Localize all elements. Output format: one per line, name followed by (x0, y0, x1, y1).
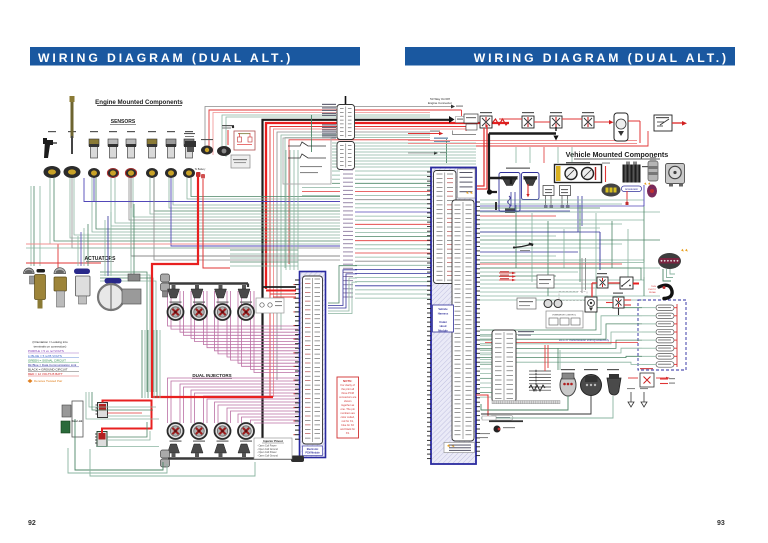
svg-text:Accelerator: Accelerator (625, 187, 638, 191)
regulator valve box (234, 131, 255, 150)
svg-text:Dk Blue = Data Communication L: Dk Blue = Data Communication Link (28, 363, 77, 367)
vehicle connector top label box (458, 169, 476, 198)
53-way connector arrowhead (449, 116, 455, 123)
sensor CKP (48, 131, 56, 132)
accelerator red drop wire (626, 191, 628, 203)
relay I-P Relay (582, 116, 594, 128)
injector bottom row (170, 441, 182, 442)
green loops under oval connector (663, 269, 671, 281)
injector cylinder top (217, 302, 229, 303)
bulkhead connector upper (345, 96, 347, 105)
green nested loops around modules (89, 392, 156, 407)
NOTE box (337, 377, 359, 438)
svg-text:Vehicle: Vehicle (438, 307, 448, 311)
pedal hook icon (659, 285, 672, 298)
injector connector bottom (191, 444, 203, 453)
svg-text:SENSORS: SENSORS (111, 119, 136, 125)
connector module lower (97, 432, 107, 447)
bulkhead left labels top band (322, 104, 336, 105)
svg-text:Denotes Twisted Pair: Denotes Twisted Pair (34, 379, 62, 383)
svg-text:- Open Coil Ground: - Open Coil Ground (257, 454, 278, 457)
MLPS connector (581, 375, 602, 396)
sensor drop wires staircase (50, 178, 340, 244)
actuator EPR silver (74, 269, 90, 275)
svg-text:blue for X2: blue for X2 (341, 423, 354, 427)
svg-text:DLC-II Transmission Wiring Ass: DLC-II Transmission Wiring Assembly (559, 338, 610, 342)
transmission greens to box (480, 308, 642, 330)
diagnostic connector purple boxes (506, 168, 530, 169)
injector pinout legend box (254, 438, 292, 459)
svg-text:color coded,: color coded, (341, 415, 355, 419)
gray verticals right zone (581, 258, 583, 293)
wire band left page lower greens (230, 249, 298, 251)
svg-text:X3.: X3. (346, 431, 350, 435)
right page vertical drops (515, 205, 517, 268)
svg-text:Engine Mounted Components: Engine Mounted Components (95, 99, 183, 106)
relay interconnect red wires (499, 118, 522, 120)
vehicle connector left pin stubs (427, 171, 431, 173)
accelerator pedal connector (602, 184, 621, 197)
ABS sensor connector (607, 378, 621, 395)
wires into 24-way (480, 335, 492, 337)
brake switch box (585, 297, 597, 312)
svg-text:PCM Module: PCM Module (305, 452, 320, 455)
vehicle connector right pill (452, 200, 474, 441)
green corner feed at bulkhead (311, 115, 313, 152)
injector top rail (168, 282, 248, 285)
green vertical drop at connector top (446, 139, 448, 163)
injector cylinder top (193, 302, 205, 303)
cluster navy drops (577, 196, 579, 232)
PCM left pin stubs (295, 279, 300, 281)
ignition switch symbol box (620, 277, 633, 289)
junction tick (495, 202, 497, 210)
green bundle down left (141, 330, 143, 398)
od buttons (544, 300, 552, 308)
relay PCM Power Relay 2 (550, 116, 562, 128)
svg-text:WIRING DIAGRAM (DUAL ALT.): WIRING DIAGRAM (DUAL ALT.) (38, 51, 293, 65)
green drops relay row to cluster (515, 147, 517, 163)
injector bottom rail (168, 457, 302, 460)
throttle body (105, 278, 122, 284)
svg-text:PEDAL: PEDAL (649, 291, 657, 294)
gray L wire right page (453, 131, 477, 135)
connector module upper (98, 403, 108, 418)
wire band into vehicle connector (355, 170, 431, 172)
svg-text:Hood: Hood (440, 324, 447, 328)
svg-text:terminals on connection): terminals on connection) (34, 345, 67, 349)
injector bottom rail end block (161, 450, 170, 458)
svg-text:For clarity of: For clarity of (341, 383, 356, 387)
svg-text:Module: Module (438, 329, 448, 333)
power bundle branches into PCM (262, 286, 296, 288)
thick red jumper wires (102, 401, 152, 434)
svg-text:OVERDRIVE CONTROL: OVERDRIVE CONTROL (552, 315, 577, 317)
injector cylinder top (240, 302, 252, 303)
sensor EOT (109, 131, 117, 132)
mauve injector harness fan bottom row (168, 378, 299, 423)
wires under sensors (481, 396, 568, 410)
vehicle harness label box (433, 305, 454, 332)
gray wire arrow mid (408, 152, 435, 154)
wire band mid greens (332, 142, 340, 144)
left page header bar (30, 47, 360, 66)
clutch switch connector (647, 185, 657, 198)
svg-text:Data Link: Data Link (72, 420, 83, 423)
injector connector top (219, 285, 223, 289)
navy drops from diag connector (510, 192, 512, 206)
data link connector (62, 405, 71, 417)
thick black branch to diagnostic connector (489, 178, 511, 184)
horn relay (597, 277, 608, 288)
mauve injector harness fan top row (168, 291, 299, 326)
injector connector bottom (238, 444, 250, 453)
blower motor (666, 164, 685, 184)
injector connector top (195, 285, 199, 289)
actuator IPR (24, 268, 35, 273)
svg-text:To Battery: To Battery (195, 168, 207, 171)
svg-text:THIS: THIS (651, 286, 657, 288)
bulkhead oval connector right column (658, 253, 681, 269)
svg-text:one. The pin: one. The pin (341, 407, 356, 411)
right page header bar (405, 47, 735, 66)
svg-text:PHOTO: PHOTO (648, 289, 656, 291)
purple data lines (480, 205, 644, 207)
thick red battery feed (152, 177, 198, 398)
13-way label blue (434, 138, 448, 139)
deep dark sensor returns (72, 178, 340, 248)
gray wire arrow at top (430, 106, 452, 108)
injector connector bottom (168, 444, 180, 453)
injector cylinder top (170, 302, 182, 303)
accelerator label pill (622, 186, 642, 192)
svg-text:Harness: Harness (438, 311, 449, 315)
extended red feeds to relays (430, 109, 462, 111)
injector connector top (242, 285, 246, 289)
brake pedal icon (514, 245, 531, 248)
green feeds to data link verticals (100, 272, 147, 392)
ignition switch cylinder (648, 161, 658, 181)
speedo box (537, 275, 554, 288)
red trans boundary line (485, 342, 638, 344)
svg-text:shown: shown (344, 399, 352, 403)
svg-text:and black for: and black for (340, 427, 355, 431)
sensor MAT (148, 131, 156, 132)
map pink tube box (231, 155, 250, 168)
svg-text:connectors are: connectors are (339, 395, 357, 399)
svg-text:together as: together as (341, 403, 355, 407)
svg-text:Under: Under (439, 320, 447, 324)
relay feed light red pair (408, 140, 637, 142)
twisted pair symbol below diag (508, 196, 511, 208)
ignition feed wires (628, 120, 640, 122)
speed control servo box (517, 298, 536, 309)
PCM connector label (303, 446, 323, 456)
ignition switch box (654, 115, 672, 131)
bulkhead wire labels (343, 169, 353, 170)
connector mounting strip hatched (492, 401, 560, 404)
svg-text:Engine Connector: Engine Connector (428, 101, 452, 105)
red verticals right page (477, 128, 484, 186)
relay LED Relay (522, 116, 534, 128)
programming connector box (256, 298, 284, 313)
sensor CMP (68, 131, 76, 132)
svg-text:BLACK = GROUND CIRCUIT: BLACK = GROUND CIRCUIT (28, 368, 68, 372)
svg-text:WIRING DIAGRAM (DUAL ALT.): WIRING DIAGRAM (DUAL ALT.) (474, 51, 729, 65)
injector connector top (172, 285, 176, 289)
accel red labels (499, 272, 514, 274)
red stubs below assembly box (660, 378, 668, 380)
ground symbols (630, 392, 632, 402)
PCM to bulkhead L wires (328, 266, 357, 303)
legend twisted pair (28, 379, 33, 383)
sensor EOP (167, 131, 175, 132)
red wire in diagnostic box (527, 184, 529, 195)
vehicle connector left pill J1 (434, 171, 457, 284)
svg-text:GREEN = SIGNAL CIRCUIT: GREEN = SIGNAL CIRCUIT (28, 358, 66, 362)
PCM connector module (left page) (300, 272, 326, 458)
svg-text:NOTE:: NOTE: (343, 379, 352, 383)
svg-text:(Orientation = Looking into: (Orientation = Looking into (32, 340, 68, 344)
MAP sensor round (217, 146, 231, 156)
pin ladder + resistor W (529, 370, 551, 372)
VSS connector (560, 374, 576, 396)
red L wire below 24-way (476, 395, 545, 418)
rocker switch (614, 113, 628, 141)
green bundle verticals mid (285, 150, 287, 270)
svg-text:three PCM: three PCM (341, 391, 353, 395)
svg-text:the print all: the print all (341, 387, 354, 391)
wire band top transfer staircase (205, 107, 430, 153)
label pill below 24-way (490, 416, 513, 421)
bulkhead connector lower (337, 142, 355, 170)
svg-text:RED = 12 VOLTS B BATT: RED = 12 VOLTS B BATT (28, 372, 63, 376)
relay PCM Power Relay 1 (480, 116, 492, 128)
svg-text:92: 92 (28, 520, 36, 527)
24-way transmission connector (492, 330, 516, 402)
bottom rail end cap (291, 456, 304, 463)
EOP switch glyph (185, 141, 196, 147)
sensor ECT (127, 131, 135, 132)
left far verticals to actuators (30, 186, 32, 266)
green corner right zone (480, 263, 644, 278)
right page green wire field (480, 199, 644, 201)
vehicle connector right pin stubs (476, 201, 480, 203)
wire relay lower (613, 297, 624, 308)
actuator fuel heater (54, 268, 66, 274)
regulator valve label and feed (222, 125, 234, 126)
sensor CMP (185, 131, 193, 132)
IP fuse red arrow (408, 133, 440, 135)
frame ground bars (489, 420, 523, 422)
PCM power fuse box (464, 114, 478, 123)
LED box 2 (560, 186, 571, 196)
sensor blue wires (84, 178, 94, 202)
cruise dashed box (559, 292, 587, 301)
thick black power path right (555, 127, 557, 131)
MAT sensor round (201, 146, 213, 155)
transmission assembly dashed box (638, 300, 686, 370)
vehicle harness connector module (right page) (431, 168, 476, 465)
fusible link zigzag (493, 119, 509, 125)
svg-text:PURPLE = 5 vo ref VOLTS: PURPLE = 5 vo ref VOLTS (28, 349, 64, 353)
svg-text:Lt BLUE = 5 ref B VOLTS: Lt BLUE = 5 ref B VOLTS (28, 354, 62, 358)
svg-text:93: 93 (717, 520, 725, 527)
LED box 1 (543, 186, 554, 196)
solenoid pills (656, 305, 674, 311)
svg-text:DUAL INJECTORS: DUAL INJECTORS (192, 373, 231, 378)
svg-text:red for X1,: red for X1, (342, 419, 354, 423)
injector rail end block (161, 274, 170, 282)
svg-text:numbers are: numbers are (340, 411, 355, 415)
vehicle connector bottom label (444, 443, 475, 453)
stop lamp feed red wire (605, 166, 607, 182)
overdrive control box (546, 311, 583, 328)
injector connector bottom (215, 444, 227, 453)
actuator feed verticals (77, 236, 79, 266)
alternator (623, 165, 641, 183)
4x4 relay box (640, 373, 654, 387)
sensor ICP (90, 131, 98, 132)
glow plug circuit box (283, 138, 331, 184)
svg-text:Injector Pinout: Injector Pinout (263, 439, 283, 443)
instrument cluster (555, 165, 602, 183)
green return loops (75, 419, 163, 470)
